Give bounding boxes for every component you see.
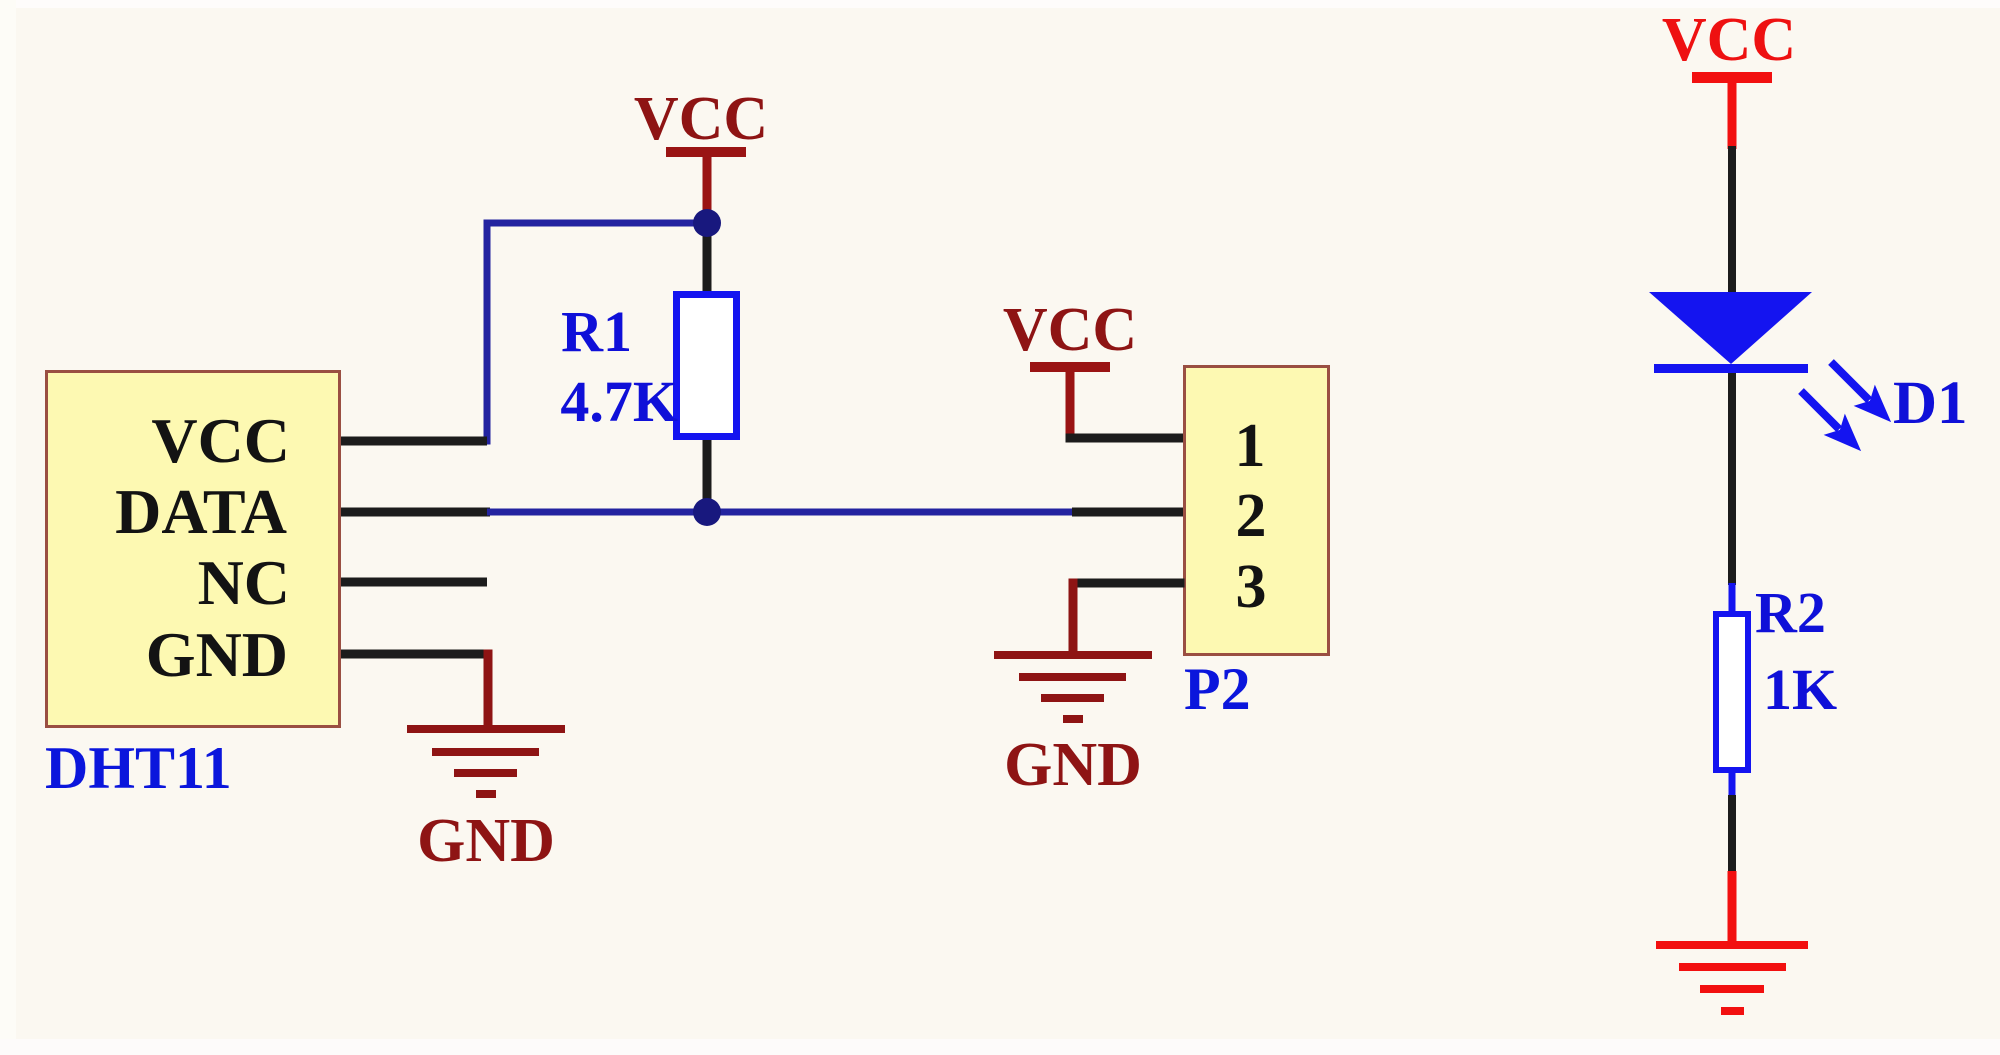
svg-text:1: 1: [1235, 412, 1266, 480]
svg-text:D1: D1: [1893, 370, 1968, 437]
wire black NC stub: [341, 578, 487, 587]
svg-text:NC: NC: [198, 547, 290, 618]
wire blue vertical down to DHT11 VCC pin: [484, 220, 491, 445]
svg-text:GND: GND: [146, 619, 288, 690]
power VCC symbol top right: [1662, 6, 1796, 149]
svg-text:2: 2: [1236, 482, 1267, 550]
LED light arrow 1: [1820, 351, 1901, 432]
resistor R1: [677, 295, 737, 437]
blue stub bottom of R2: [1729, 770, 1736, 797]
power VCC symbol above R1: [634, 85, 768, 224]
svg-text:R2: R2: [1755, 580, 1826, 645]
svg-text:P2: P2: [1184, 656, 1251, 722]
LED D1 cathode bar: [1654, 364, 1808, 373]
connector P2 box: [1185, 367, 1329, 655]
svg-text:DATA: DATA: [115, 476, 287, 547]
junction node on DATA net: [693, 498, 721, 526]
junction node at VCC/R1: [693, 209, 721, 237]
svg-text:GND: GND: [1004, 731, 1142, 799]
wire black GND stub from DHT11: [341, 650, 492, 659]
wire black P2 pin 3: [1069, 579, 1185, 588]
ground symbol below DHT11: [407, 725, 565, 798]
page edge tint bottom: [0, 1039, 2000, 1055]
DHT11 box: [47, 372, 340, 727]
svg-text:VCC: VCC: [634, 85, 768, 153]
page edge tint left: [0, 0, 16, 1055]
wire black DATA stub into P2 pin 2: [1072, 508, 1184, 517]
svg-text:VCC: VCC: [1662, 6, 1796, 74]
svg-text:1K: 1K: [1763, 657, 1837, 722]
svg-text:DHT11: DHT11: [45, 735, 232, 801]
svg-text:3: 3: [1236, 553, 1267, 621]
svg-text:4.7K: 4.7K: [560, 369, 678, 434]
wire black from R2 to ground: [1728, 795, 1736, 873]
ground symbol below P2: [994, 651, 1152, 723]
wire black from node to R1 top: [703, 223, 712, 293]
ground symbol bottom right: [1656, 941, 1808, 1015]
page edge tint top: [0, 0, 2000, 8]
LED light arrow 2: [1790, 380, 1871, 461]
wire black from LED cathode to R2: [1728, 373, 1736, 585]
wire black VCC pin stub of DHT11: [341, 437, 487, 446]
blue stub top of R2: [1729, 583, 1736, 613]
svg-text:GND: GND: [417, 807, 555, 875]
wire black from R1 bottom to DATA node: [703, 440, 712, 512]
wire black DATA stub from DHT11: [341, 508, 490, 517]
svg-text:R1: R1: [561, 299, 632, 364]
wire black from VCC to LED anode: [1728, 146, 1736, 296]
wire dark red down to ground below P2: [1069, 579, 1078, 659]
svg-text:VCC: VCC: [1003, 296, 1137, 364]
wire blue DATA net: [487, 509, 1073, 516]
wire blue horizontal from VCC node to left: [484, 220, 707, 227]
power VCC symbol above P2: [1003, 296, 1137, 442]
LED D1 triangle: [1649, 292, 1812, 364]
svg-text:VCC: VCC: [151, 405, 290, 476]
wire dark red down to ground: [484, 650, 493, 730]
wire black P2 pin 1: [1066, 434, 1185, 443]
resistor R2: [1716, 614, 1748, 770]
wire red to ground symbol: [1728, 871, 1737, 946]
